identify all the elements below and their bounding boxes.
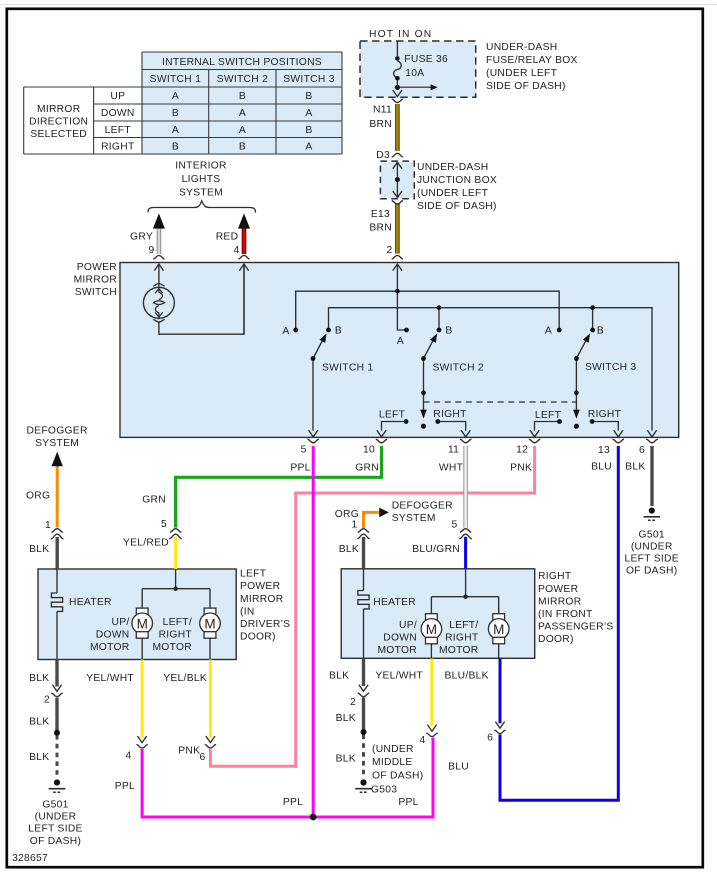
svg-text:FUSE/RELAY BOX: FUSE/RELAY BOX <box>486 55 578 66</box>
svg-text:OF DASH): OF DASH) <box>372 770 423 781</box>
svg-text:B: B <box>172 141 179 152</box>
svg-text:PPL: PPL <box>290 463 310 474</box>
svg-text:LEFT: LEFT <box>240 569 267 580</box>
svg-text:SWITCH 2: SWITCH 2 <box>217 74 268 85</box>
svg-text:M: M <box>137 616 148 631</box>
svg-text:SWITCH 1: SWITCH 1 <box>150 74 201 85</box>
svg-text:N11: N11 <box>373 105 392 116</box>
svg-text:MIRROR: MIRROR <box>538 596 581 607</box>
svg-text:(IN FRONT: (IN FRONT <box>538 609 593 620</box>
svg-text:HOT IN ON: HOT IN ON <box>369 29 432 40</box>
svg-text:HEATER: HEATER <box>69 597 112 608</box>
svg-text:WHT: WHT <box>439 463 464 474</box>
svg-text:MIRROR: MIRROR <box>240 594 283 605</box>
svg-text:1: 1 <box>351 519 357 530</box>
svg-text:LEFT/: LEFT/ <box>449 620 478 631</box>
svg-text:(UNDER: (UNDER <box>35 812 77 823</box>
svg-text:SYSTEM: SYSTEM <box>392 513 436 524</box>
svg-text:RIGHT: RIGHT <box>159 630 193 641</box>
svg-text:BLU: BLU <box>448 762 469 773</box>
svg-text:LEFT SIDE: LEFT SIDE <box>624 553 678 564</box>
svg-text:(UNDER LEFT: (UNDER LEFT <box>486 68 558 79</box>
svg-text:DOWN: DOWN <box>96 630 130 641</box>
svg-text:FUSE 36: FUSE 36 <box>404 54 448 65</box>
svg-text:B: B <box>597 326 604 337</box>
svg-text:B: B <box>239 91 246 102</box>
svg-text:PPL: PPL <box>283 797 303 808</box>
svg-text:BLK: BLK <box>329 671 349 682</box>
svg-text:DIRECTION: DIRECTION <box>29 117 88 128</box>
svg-text:LEFT: LEFT <box>379 410 406 421</box>
svg-text:RED: RED <box>216 232 239 243</box>
svg-text:DEFOGGER: DEFOGGER <box>392 501 453 512</box>
svg-text:JUNCTION BOX: JUNCTION BOX <box>417 175 497 186</box>
svg-text:LIGHTS: LIGHTS <box>182 174 221 185</box>
svg-text:INTERNAL SWITCH POSITIONS: INTERNAL SWITCH POSITIONS <box>162 57 322 68</box>
svg-text:G501: G501 <box>42 799 68 810</box>
svg-text:PPL: PPL <box>115 781 135 792</box>
svg-text:GRY: GRY <box>130 232 153 243</box>
svg-text:MOTOR: MOTOR <box>152 642 192 653</box>
svg-text:GRN: GRN <box>142 495 166 506</box>
svg-text:B: B <box>172 108 179 119</box>
svg-text:BLK: BLK <box>336 754 356 765</box>
svg-text:BRN: BRN <box>369 119 392 130</box>
svg-text:6: 6 <box>639 445 645 456</box>
svg-text:A: A <box>282 326 289 337</box>
svg-text:G501: G501 <box>639 529 665 540</box>
svg-text:UP/: UP/ <box>111 617 129 628</box>
svg-text:BLK: BLK <box>339 544 359 555</box>
svg-text:4: 4 <box>233 245 239 256</box>
svg-text:5: 5 <box>451 519 457 530</box>
svg-text:12: 12 <box>516 444 528 455</box>
svg-text:(UNDER: (UNDER <box>372 744 414 755</box>
svg-text:5: 5 <box>161 519 167 530</box>
svg-text:DEFOGGER: DEFOGGER <box>27 426 88 437</box>
svg-text:ORG: ORG <box>335 509 359 520</box>
svg-text:ORG: ORG <box>26 491 50 502</box>
svg-text:POWER: POWER <box>77 262 117 273</box>
svg-text:RIGHT: RIGHT <box>101 141 135 152</box>
svg-text:GRN: GRN <box>355 463 379 474</box>
svg-text:BLU: BLU <box>591 461 612 472</box>
svg-text:11: 11 <box>448 444 459 455</box>
svg-text:RIGHT: RIGHT <box>538 571 572 582</box>
svg-text:OF DASH): OF DASH) <box>626 565 677 576</box>
svg-text:YEL/RED: YEL/RED <box>123 537 169 548</box>
svg-text:B: B <box>445 326 452 337</box>
svg-text:MOTOR: MOTOR <box>439 645 479 656</box>
svg-text:DOWN: DOWN <box>383 633 417 644</box>
svg-text:HEATER: HEATER <box>373 597 416 608</box>
svg-text:(IN: (IN <box>240 606 255 617</box>
svg-text:DRIVER’S: DRIVER’S <box>240 619 290 630</box>
svg-text:YEL/BLK: YEL/BLK <box>163 673 207 684</box>
svg-text:10A: 10A <box>405 68 424 79</box>
svg-text:9: 9 <box>148 245 154 256</box>
svg-text:BLU/GRN: BLU/GRN <box>412 544 460 555</box>
svg-text:A: A <box>172 91 179 102</box>
svg-text:4: 4 <box>125 751 131 762</box>
svg-text:4: 4 <box>419 735 425 746</box>
svg-text:B: B <box>305 91 312 102</box>
svg-text:LEFT SIDE: LEFT SIDE <box>28 824 82 835</box>
svg-text:UNDER-DASH: UNDER-DASH <box>417 162 488 173</box>
svg-text:MIRROR: MIRROR <box>37 104 80 115</box>
svg-text:POWER: POWER <box>240 581 280 592</box>
svg-text:A: A <box>305 108 312 119</box>
svg-text:E13: E13 <box>371 209 390 220</box>
svg-text:6: 6 <box>199 752 205 763</box>
svg-text:A: A <box>397 336 404 347</box>
svg-text:MOTOR: MOTOR <box>90 642 130 653</box>
svg-text:A: A <box>172 125 179 136</box>
svg-text:YEL/WHT: YEL/WHT <box>86 673 134 684</box>
svg-text:(UNDER LEFT: (UNDER LEFT <box>417 188 489 199</box>
svg-text:BLK: BLK <box>29 544 49 555</box>
svg-text:A: A <box>545 326 552 337</box>
svg-text:BLK: BLK <box>29 673 49 684</box>
svg-text:PPL: PPL <box>398 797 418 808</box>
svg-text:2: 2 <box>350 697 356 708</box>
svg-text:BLK: BLK <box>336 713 356 724</box>
svg-text:13: 13 <box>598 445 610 456</box>
svg-text:UP/: UP/ <box>399 620 417 631</box>
svg-text:M: M <box>493 622 504 637</box>
svg-text:PNK: PNK <box>510 463 532 474</box>
svg-text:6: 6 <box>487 732 493 743</box>
svg-text:DOOR): DOOR) <box>240 632 276 643</box>
svg-text:BLK: BLK <box>625 461 645 472</box>
svg-text:LEFT: LEFT <box>535 410 562 421</box>
svg-text:1: 1 <box>45 520 51 531</box>
svg-text:M: M <box>204 616 215 631</box>
svg-text:YEL/WHT: YEL/WHT <box>375 671 423 682</box>
svg-text:RIGHT: RIGHT <box>445 633 479 644</box>
svg-text:2: 2 <box>386 245 392 256</box>
svg-text:DOWN: DOWN <box>101 108 135 119</box>
svg-text:5: 5 <box>301 444 307 455</box>
svg-text:A: A <box>305 141 312 152</box>
svg-text:OF DASH): OF DASH) <box>30 836 81 847</box>
svg-text:10: 10 <box>363 444 375 455</box>
svg-text:INTERIOR: INTERIOR <box>175 160 226 171</box>
svg-text:SWITCH 2: SWITCH 2 <box>433 363 484 374</box>
svg-text:SYSTEM: SYSTEM <box>35 438 79 449</box>
svg-text:RIGHT: RIGHT <box>433 409 467 420</box>
svg-text:SWITCH 1: SWITCH 1 <box>322 363 373 374</box>
svg-text:(UNDER: (UNDER <box>631 541 673 552</box>
svg-text:A: A <box>239 125 246 136</box>
svg-text:POWER: POWER <box>538 584 578 595</box>
svg-text:SYSTEM: SYSTEM <box>179 188 223 199</box>
svg-text:RIGHT: RIGHT <box>588 409 622 420</box>
svg-text:SWITCH: SWITCH <box>75 287 117 298</box>
svg-text:MIRROR: MIRROR <box>74 274 117 285</box>
svg-text:SWITCH 3: SWITCH 3 <box>585 362 636 373</box>
svg-text:DOOR): DOOR) <box>538 634 574 645</box>
svg-text:D3: D3 <box>376 150 390 161</box>
svg-text:BLK: BLK <box>29 752 49 763</box>
svg-text:SIDE OF DASH): SIDE OF DASH) <box>417 201 497 212</box>
svg-text:G503: G503 <box>371 785 397 796</box>
svg-text:PASSENGER’S: PASSENGER’S <box>538 621 614 632</box>
svg-text:SWITCH 3: SWITCH 3 <box>283 74 334 85</box>
svg-text:BRN: BRN <box>369 223 392 234</box>
svg-text:328657: 328657 <box>12 853 48 864</box>
svg-text:MIDDLE: MIDDLE <box>372 757 413 768</box>
svg-text:BLK: BLK <box>29 716 49 727</box>
svg-text:B: B <box>239 141 246 152</box>
svg-text:A: A <box>239 108 246 119</box>
svg-text:B: B <box>335 326 342 337</box>
svg-text:UP: UP <box>110 91 125 102</box>
svg-text:LEFT/: LEFT/ <box>163 617 192 628</box>
svg-text:SIDE OF DASH): SIDE OF DASH) <box>486 81 566 92</box>
svg-text:B: B <box>305 125 312 136</box>
svg-text:BLU/BLK: BLU/BLK <box>444 671 488 682</box>
svg-text:MOTOR: MOTOR <box>377 645 417 656</box>
svg-text:LEFT: LEFT <box>105 125 132 136</box>
svg-text:SELECTED: SELECTED <box>30 129 87 140</box>
svg-text:UNDER-DASH: UNDER-DASH <box>486 42 557 53</box>
svg-text:PNK: PNK <box>178 746 200 757</box>
svg-text:2: 2 <box>44 695 50 706</box>
svg-text:M: M <box>426 622 437 637</box>
